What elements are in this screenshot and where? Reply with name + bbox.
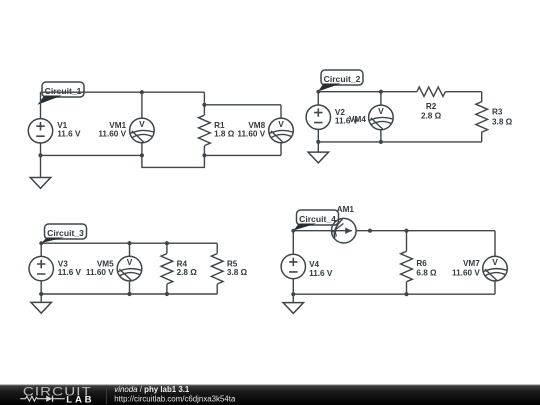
svg-text:11.60 V: 11.60 V xyxy=(237,130,265,139)
svg-text:3.8 Ω: 3.8 Ω xyxy=(492,117,513,126)
svg-text:Circuit_3: Circuit_3 xyxy=(47,228,84,238)
svg-text:2.8 Ω: 2.8 Ω xyxy=(421,111,442,120)
svg-text:vinoda / phy lab1 3.1: vinoda / phy lab1 3.1 xyxy=(114,385,190,394)
svg-text:2.8 Ω: 2.8 Ω xyxy=(177,268,198,277)
svg-text:11.60 V: 11.60 V xyxy=(452,268,480,277)
svg-text:11.6 V: 11.6 V xyxy=(58,268,82,277)
svg-text:AM1: AM1 xyxy=(337,205,355,214)
svg-text:LAB: LAB xyxy=(66,395,94,405)
svg-text:R2: R2 xyxy=(426,102,437,111)
svg-text:11.6 V: 11.6 V xyxy=(309,269,333,278)
svg-text:11.6 V: 11.6 V xyxy=(57,130,81,139)
svg-text:Circuit_4: Circuit_4 xyxy=(299,214,336,224)
svg-text:VM4: VM4 xyxy=(349,115,366,124)
svg-text:Circuit_2: Circuit_2 xyxy=(324,74,361,84)
svg-text:11.60 V: 11.60 V xyxy=(98,130,126,139)
svg-text:V4: V4 xyxy=(309,260,319,269)
svg-text:Circuit_1: Circuit_1 xyxy=(45,86,82,96)
svg-text:R4: R4 xyxy=(177,259,188,268)
svg-text:6.8 Ω: 6.8 Ω xyxy=(416,268,437,277)
svg-text:http://circuitlab.com/c6djnxa3: http://circuitlab.com/c6djnxa3k54ta xyxy=(114,395,236,404)
svg-text:R3: R3 xyxy=(492,108,503,117)
svg-text:R6: R6 xyxy=(416,259,427,268)
svg-text:VM7: VM7 xyxy=(463,259,480,268)
svg-text:R5: R5 xyxy=(227,259,238,268)
svg-text:1.8 Ω: 1.8 Ω xyxy=(214,130,235,139)
svg-text:11.60 V: 11.60 V xyxy=(86,268,114,277)
svg-text:3.8 Ω: 3.8 Ω xyxy=(227,268,248,277)
svg-text:V3: V3 xyxy=(58,259,68,268)
svg-text:V2: V2 xyxy=(335,108,345,117)
svg-text:VM5: VM5 xyxy=(97,259,114,268)
